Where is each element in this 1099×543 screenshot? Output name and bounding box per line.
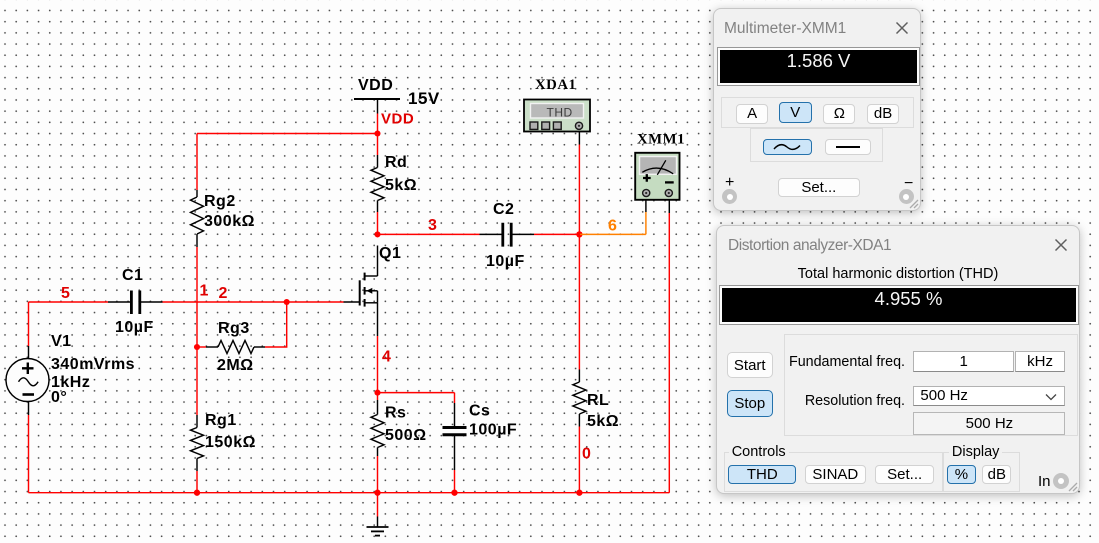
junction VDD node (374, 130, 380, 136)
svg-text:340mVrms: 340mVrms (51, 356, 135, 373)
capacitor C1 (108, 291, 163, 315)
wire XMM1 minus lead down to rail (668, 197, 670, 493)
wire net2 riser to Rg3 right (265, 302, 287, 347)
junction node6 (576, 231, 582, 237)
svg-text:100µF: 100µF (469, 422, 517, 439)
Multimeter XMM1 panel (713, 8, 921, 211)
svg-text:VDD: VDD (381, 111, 414, 128)
svg-text:3: 3 (428, 217, 437, 234)
resistor Rg2 (191, 190, 204, 247)
svg-text:5: 5 (61, 285, 70, 302)
junction RL rail (576, 490, 582, 496)
wire orange net6 to XMM1 (579, 197, 646, 235)
svg-text:6: 6 (608, 218, 617, 235)
svg-text:150kΩ: 150kΩ (205, 434, 256, 451)
resistor Rg1 (191, 415, 204, 471)
wire XDA1 stem down to node6 (578, 130, 580, 235)
svg-text:V1: V1 (51, 333, 72, 350)
svg-text:4: 4 (382, 349, 391, 366)
wire net5 V1 top to C1 (29, 302, 109, 346)
svg-text:1: 1 (200, 283, 209, 300)
svg-text:5kΩ: 5kΩ (385, 177, 417, 194)
wire VDD node down to Rd (377, 134, 379, 156)
resistor Rs (371, 400, 384, 456)
wire ground stem (377, 493, 379, 527)
junction Rg3 tap (194, 344, 200, 350)
svg-text:Cs: Cs (469, 403, 490, 420)
wire Rs bottom to rail (377, 456, 379, 493)
wire net2 C1 to gate (163, 301, 344, 303)
wire C2 to node6 (534, 233, 579, 235)
svg-text:15V: 15V (408, 89, 440, 108)
wire node4 to Cs branch (378, 393, 455, 403)
wire V1 bottom to rail (28, 402, 30, 493)
AC source V1 (6, 346, 49, 402)
wire node6 down to RL (578, 234, 580, 369)
MOSFET Q1 (344, 246, 378, 337)
resistor Rg3 (206, 341, 265, 354)
capacitor Cs (443, 403, 467, 470)
wire VDD stem (377, 114, 379, 134)
wire Rg3 left lead red (197, 346, 206, 348)
svg-text:XMM1: XMM1 (637, 132, 685, 148)
svg-text:0°: 0° (51, 389, 67, 406)
Distortion analyzer XDA1 panel (716, 225, 1080, 494)
svg-text:10µF: 10µF (486, 253, 525, 270)
resistor RL (573, 370, 586, 427)
wire Rs top red overlay (377, 393, 379, 400)
junction Cs rail (451, 490, 457, 496)
svg-text:Rg1: Rg1 (205, 412, 237, 429)
svg-text:Rg2: Rg2 (204, 193, 236, 210)
svg-text:C1: C1 (122, 267, 143, 284)
ground (367, 527, 389, 536)
svg-text:THD: THD (547, 106, 573, 120)
svg-text:2MΩ: 2MΩ (217, 357, 254, 374)
resistor Rd (371, 155, 384, 212)
wire Q1 source down to node4 (377, 336, 379, 393)
svg-text:VDD: VDD (358, 77, 393, 94)
svg-text:10µF: 10µF (115, 319, 154, 336)
instrument icon XMM1 (635, 153, 679, 200)
svg-text:Rs: Rs (385, 405, 406, 422)
wire RL bottom to rail (578, 427, 580, 493)
wire Cs bottom to rail (454, 470, 456, 493)
svg-text:Rd: Rd (385, 154, 407, 171)
svg-text:300kΩ: 300kΩ (204, 213, 255, 230)
instrument icon XDA1 (524, 100, 590, 132)
svg-text:500Ω: 500Ω (385, 427, 427, 444)
junction Rs rail (374, 490, 380, 496)
svg-text:2: 2 (219, 285, 228, 302)
wire Rg1 bottom to rail (196, 471, 198, 493)
junction net2 riser (284, 299, 290, 305)
svg-text:C2: C2 (493, 201, 514, 218)
svg-text:RL: RL (587, 392, 609, 409)
junction node3 (374, 231, 380, 237)
wire ground rail net0 (29, 492, 670, 494)
Q1 arrow (366, 288, 372, 294)
junction node4 (374, 390, 380, 396)
svg-text:Rg3: Rg3 (218, 320, 250, 337)
wire net1 top rail to Rg2 (197, 134, 378, 191)
svg-text:5kΩ: 5kΩ (587, 413, 619, 430)
VDD power symbol (354, 99, 400, 114)
svg-text:XDA1: XDA1 (535, 77, 576, 93)
junction Rg1 rail (194, 490, 200, 496)
wire net1 Rg2 to Rg3 tap to Rg1 (196, 247, 198, 415)
svg-text:Q1: Q1 (379, 245, 401, 262)
wire Rd bottom to node3 (377, 212, 379, 234)
capacitor C2 (480, 223, 535, 247)
svg-text:0: 0 (582, 446, 591, 463)
wire net3 node to C2 (378, 233, 480, 235)
